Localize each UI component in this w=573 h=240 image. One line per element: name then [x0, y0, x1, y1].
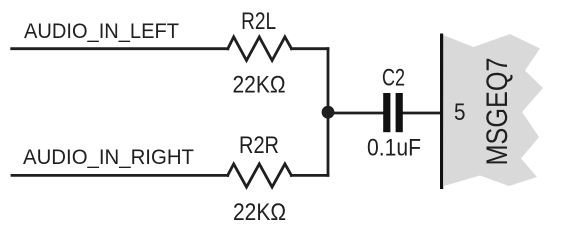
svg-text:22KΩ: 22KΩ: [233, 72, 286, 99]
svg-text:R2R: R2R: [239, 132, 279, 159]
svg-text:22KΩ: 22KΩ: [233, 199, 286, 226]
svg-text:MSGEQ7: MSGEQ7: [481, 58, 514, 166]
svg-text:AUDIO_IN_LEFT: AUDIO_IN_LEFT: [24, 20, 179, 43]
svg-text:AUDIO_IN_RIGHT: AUDIO_IN_RIGHT: [23, 146, 194, 169]
svg-text:C2: C2: [382, 64, 405, 91]
svg-text:5: 5: [454, 99, 466, 126]
svg-text:0.1uF: 0.1uF: [367, 135, 421, 162]
svg-text:R2L: R2L: [241, 8, 276, 35]
